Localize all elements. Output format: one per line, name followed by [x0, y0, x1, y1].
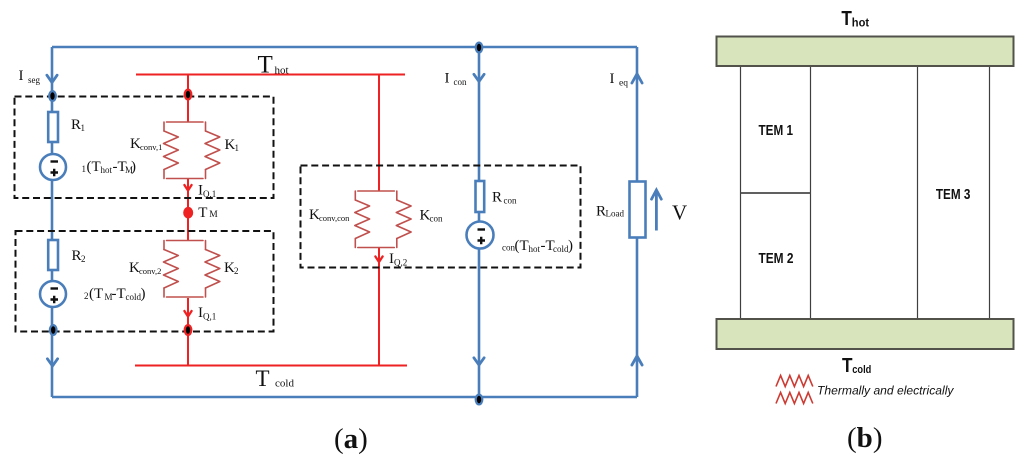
svg-text:Q,2: Q,2	[394, 258, 407, 268]
svg-text:hot: hot	[275, 65, 289, 77]
svg-text:(T: (T	[89, 286, 103, 302]
svg-text:1: 1	[235, 143, 240, 153]
svg-text:R: R	[71, 117, 81, 133]
svg-text:T: T	[256, 366, 270, 391]
svg-text:conv,con: conv,con	[319, 213, 350, 223]
svg-text:2: 2	[234, 266, 239, 276]
svg-text:seg: seg	[28, 75, 40, 85]
svg-text:T: T	[258, 52, 273, 79]
svg-text:con: con	[454, 77, 467, 87]
svg-text:con: con	[430, 214, 443, 224]
svg-text:2: 2	[81, 254, 86, 264]
svg-text:con: con	[502, 243, 515, 253]
svg-text:(b): (b)	[847, 422, 882, 454]
svg-text:I: I	[610, 71, 615, 87]
svg-text:TEM 3: TEM 3	[936, 187, 971, 203]
svg-text:TEM 1: TEM 1	[759, 123, 794, 139]
svg-text:I: I	[19, 68, 24, 84]
svg-text:-T: -T	[112, 286, 126, 302]
svg-text:conv,2: conv,2	[139, 266, 161, 276]
svg-text:T: T	[841, 8, 852, 30]
svg-text:1: 1	[81, 123, 86, 133]
svg-text:cold: cold	[275, 378, 294, 390]
svg-text:T: T	[842, 355, 853, 377]
svg-text:hot: hot	[101, 165, 113, 175]
svg-text:): )	[141, 286, 146, 302]
svg-text:cold: cold	[126, 292, 142, 302]
svg-text:): )	[568, 238, 573, 254]
svg-text:(a): (a)	[334, 423, 368, 455]
svg-text:(T: (T	[87, 159, 101, 175]
svg-text:conv,1: conv,1	[140, 142, 162, 152]
svg-text:Load: Load	[606, 209, 625, 219]
svg-text:R: R	[596, 204, 606, 220]
svg-text:V: V	[672, 201, 687, 225]
svg-text:hot: hot	[529, 244, 541, 254]
svg-text:2: 2	[84, 291, 89, 301]
svg-text:R: R	[72, 248, 82, 264]
svg-text:cold: cold	[852, 364, 871, 376]
svg-text:eq: eq	[619, 79, 628, 89]
svg-text:): )	[131, 159, 136, 175]
svg-text:T: T	[198, 205, 207, 221]
svg-text:I: I	[445, 71, 450, 87]
svg-text:con: con	[504, 196, 517, 206]
svg-text:hot: hot	[852, 18, 869, 30]
svg-text:1: 1	[82, 164, 87, 174]
svg-text:Q,1: Q,1	[203, 189, 216, 199]
svg-text:Q,1: Q,1	[203, 312, 216, 322]
svg-text:Thermally and electrically: Thermally and electrically	[817, 384, 954, 398]
svg-text:M: M	[209, 210, 218, 220]
svg-text:cold: cold	[553, 244, 569, 254]
svg-text:R: R	[492, 190, 502, 206]
svg-text:TEM 2: TEM 2	[759, 251, 794, 267]
svg-text:(T: (T	[515, 238, 529, 254]
